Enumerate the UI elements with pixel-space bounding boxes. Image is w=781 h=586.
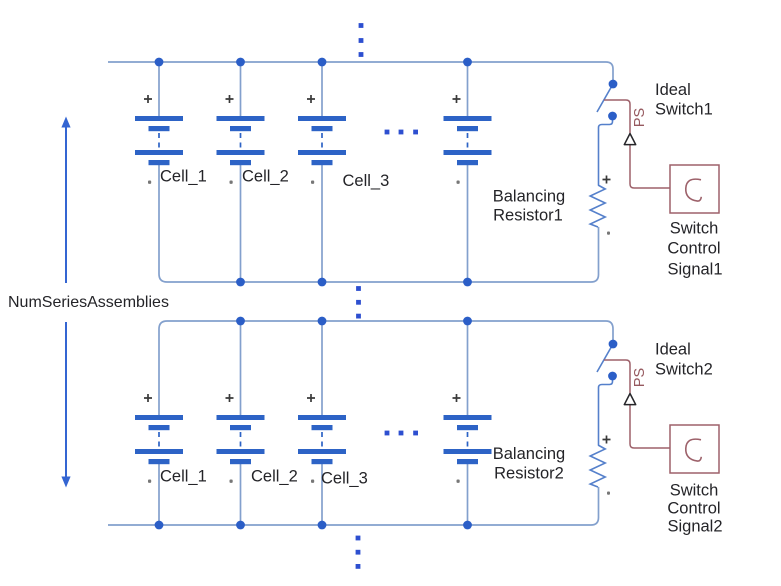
svg-text:Cell_3: Cell_3 xyxy=(343,172,390,190)
svg-text:Cell_2: Cell_2 xyxy=(242,168,289,186)
svg-text:Cell_1: Cell_1 xyxy=(160,168,207,186)
svg-text:Ideal: Ideal xyxy=(655,81,691,99)
svg-text:Switch1: Switch1 xyxy=(655,101,713,119)
svg-text:Resistor1: Resistor1 xyxy=(493,207,563,225)
svg-text:Cell_1: Cell_1 xyxy=(160,468,207,486)
svg-text:NumSeriesAssemblies: NumSeriesAssemblies xyxy=(8,294,169,311)
svg-text:Switch: Switch xyxy=(670,220,719,238)
svg-text:Resistor2: Resistor2 xyxy=(494,465,564,483)
svg-text:Cell_2: Cell_2 xyxy=(251,468,298,486)
svg-text:Balancing: Balancing xyxy=(493,188,565,206)
svg-text:Switch2: Switch2 xyxy=(655,361,713,379)
svg-text:Control: Control xyxy=(667,240,720,258)
svg-text:Ideal: Ideal xyxy=(655,341,691,359)
svg-text:Signal2: Signal2 xyxy=(667,518,722,536)
svg-text:Switch: Switch xyxy=(670,482,719,500)
svg-text:Control: Control xyxy=(667,500,720,518)
svg-text:Signal1: Signal1 xyxy=(667,261,722,279)
svg-text:Cell_3: Cell_3 xyxy=(321,470,368,488)
svg-text:Balancing: Balancing xyxy=(493,445,565,463)
